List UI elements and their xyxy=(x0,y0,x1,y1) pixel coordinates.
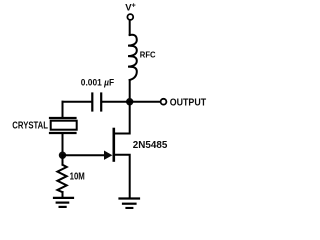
wire crystal to gate node xyxy=(62,133,64,155)
svg-text:RFC: RFC xyxy=(140,51,156,60)
capacitor C1 plates xyxy=(91,94,93,111)
ground (left, below R1) xyxy=(54,197,73,199)
inductor RFC xyxy=(128,35,137,80)
svg-text:10M: 10M xyxy=(70,172,85,183)
crystal Y1 bottom plate xyxy=(50,132,76,134)
wire RFC to drain node xyxy=(129,80,131,99)
wire capacitor to crystal top xyxy=(62,102,64,117)
wire resistor to ground xyxy=(62,192,64,197)
wire junction to output terminal xyxy=(130,101,161,103)
transistor Q1 drain lead xyxy=(114,105,130,134)
wire gate node to resistor xyxy=(62,155,64,164)
svg-text:0.001 µF: 0.001 µF xyxy=(81,77,115,87)
resistor R1 10M zigzag xyxy=(57,165,66,192)
svg-text:V+: V+ xyxy=(125,3,135,14)
V+ supply terminal xyxy=(127,14,133,20)
transistor Q1 source lead xyxy=(114,155,130,197)
wire V+ terminal to RFC xyxy=(129,20,131,35)
crystal Y1 top plate xyxy=(50,117,76,119)
svg-text:CRYSTAL: CRYSTAL xyxy=(12,121,48,132)
wire gate node to JFET gate xyxy=(63,154,105,156)
transistor Q1 channel bar xyxy=(113,129,116,161)
capacitor C1 0.001uF : right lead wire xyxy=(102,101,130,103)
svg-text:OUTPUT: OUTPUT xyxy=(170,98,206,109)
svg-text:2N5485: 2N5485 xyxy=(133,140,168,151)
crystal Y1 body xyxy=(51,121,77,130)
transistor Q1 2N5485 gate arrow xyxy=(104,151,112,160)
capacitor C1 left lead wire xyxy=(63,101,92,103)
node gate junction xyxy=(59,152,66,159)
output terminal xyxy=(161,99,167,105)
node drain/output junction xyxy=(126,98,133,105)
ground (right, JFET source) xyxy=(120,197,140,199)
